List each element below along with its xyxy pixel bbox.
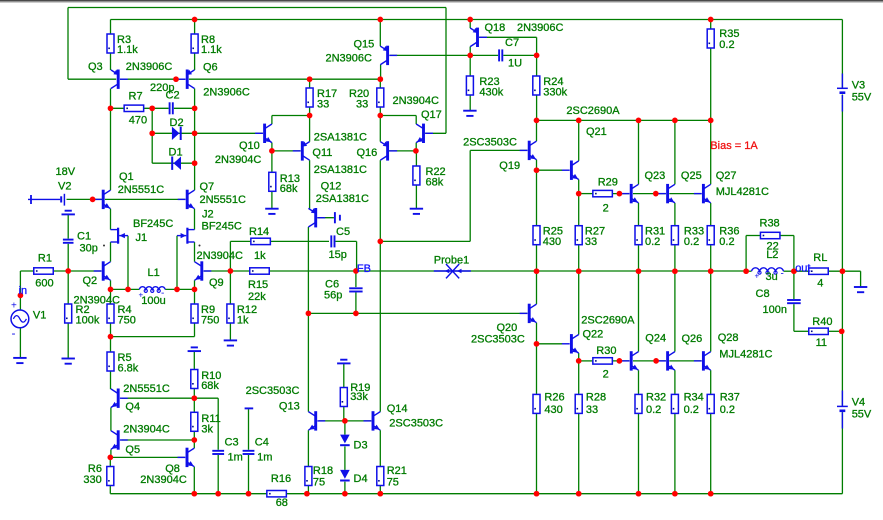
svg-text:R15: R15	[248, 279, 268, 291]
wire	[537, 343, 563, 345]
svg-text:100n: 100n	[763, 304, 787, 316]
wire	[638, 370, 640, 394]
svg-text:2N3904C: 2N3904C	[123, 424, 170, 436]
wire	[229, 241, 231, 271]
svg-text:Q15: Q15	[354, 39, 375, 51]
wire	[379, 430, 381, 466]
junction	[653, 358, 659, 364]
label 2N3904C	[215, 154, 262, 166]
transistor Q5	[111, 430, 128, 449]
label 2SC3503C	[463, 136, 517, 148]
label 55V	[852, 92, 872, 104]
svg-text:Q28: Q28	[718, 332, 739, 344]
wire	[110, 371, 112, 389]
resistor R11	[191, 412, 198, 431]
junction	[192, 105, 198, 111]
svg-text:33: 33	[586, 404, 598, 416]
label R17	[317, 88, 337, 100]
label R1	[38, 253, 52, 265]
junction	[107, 455, 113, 461]
label Q28	[718, 332, 739, 344]
resistor R25	[533, 226, 540, 245]
label 11	[816, 337, 827, 349]
junction	[377, 239, 383, 245]
label 2SC3503C	[389, 418, 443, 430]
label 750	[118, 315, 136, 327]
wire	[828, 330, 842, 332]
label 2SA1381C	[314, 164, 367, 176]
transistor Q8	[178, 448, 195, 467]
junction	[192, 130, 198, 136]
wire	[344, 482, 346, 494]
wire	[109, 457, 111, 466]
junction	[576, 191, 582, 197]
svg-text:2N3906C: 2N3906C	[126, 61, 173, 73]
label 2	[603, 203, 609, 215]
label Q25	[681, 170, 702, 182]
wire	[469, 47, 471, 56]
wire	[19, 328, 21, 358]
wire	[710, 120, 712, 184]
wire	[784, 270, 794, 272]
svg-text:R28: R28	[586, 391, 606, 403]
svg-text:2N3904C: 2N3904C	[215, 154, 262, 166]
label R34	[684, 391, 704, 403]
label R16	[271, 473, 291, 485]
voltage source V4	[841, 391, 843, 429]
wire	[193, 351, 195, 369]
label 0.2	[719, 236, 734, 248]
wire	[230, 240, 329, 242]
svg-text:Q24: Q24	[645, 333, 666, 345]
svg-text:55V: 55V	[852, 92, 872, 104]
wire to V4	[841, 271, 843, 406]
label 33	[585, 236, 597, 248]
wire	[110, 408, 112, 431]
junction	[108, 287, 114, 293]
label D2	[170, 117, 184, 129]
svg-text:Q19: Q19	[499, 160, 520, 172]
svg-text:D4: D4	[354, 473, 368, 485]
svg-text:V4: V4	[852, 397, 865, 409]
wire	[309, 116, 311, 142]
resistor R34	[671, 394, 678, 413]
label R22	[426, 166, 446, 178]
label R2	[76, 304, 90, 316]
label 1k	[237, 315, 249, 327]
svg-text:Q9: Q9	[209, 277, 224, 289]
svg-text:Q14: Q14	[387, 403, 408, 415]
label R7	[129, 91, 143, 103]
transistor Q11	[293, 141, 310, 160]
label 0.2	[684, 236, 699, 248]
label R37	[720, 391, 740, 403]
junction	[353, 311, 359, 317]
wire	[536, 55, 538, 76]
resistor R12	[227, 304, 234, 323]
svg-text:18V: 18V	[56, 166, 76, 178]
transistor Q15	[380, 46, 397, 65]
junction	[617, 358, 623, 364]
svg-text:C4: C4	[255, 437, 269, 449]
label 2N3904C	[393, 95, 440, 107]
resistor R1	[34, 268, 54, 274]
junction	[18, 293, 24, 299]
junction	[708, 17, 714, 23]
label J2	[202, 209, 214, 221]
label 2N3904C	[197, 250, 244, 262]
wire	[195, 132, 263, 134]
wire	[379, 79, 381, 88]
label BF245C	[133, 218, 173, 230]
label R21	[387, 465, 407, 477]
ground under R23	[463, 111, 476, 116]
label 75	[313, 477, 325, 489]
label 0.2	[646, 404, 661, 416]
label R32	[646, 391, 666, 403]
wire	[110, 209, 112, 230]
wire	[309, 160, 311, 208]
label 220p	[150, 82, 174, 94]
inductor L2 polarity	[755, 269, 784, 281]
transistor Q10	[255, 124, 272, 143]
resistor R33	[671, 226, 678, 245]
svg-text:MJL4281C: MJL4281C	[716, 186, 769, 198]
svg-text:1k: 1k	[254, 250, 266, 262]
label 3k	[201, 424, 213, 436]
svg-text:V1: V1	[33, 310, 46, 322]
resistor R7	[124, 105, 143, 111]
wire	[67, 8, 69, 80]
wire	[860, 271, 862, 287]
wire	[379, 486, 381, 494]
svg-text:0.2: 0.2	[720, 404, 735, 416]
wire	[217, 455, 219, 494]
svg-text:R37: R37	[720, 391, 740, 403]
label Q14	[387, 403, 408, 415]
label 330	[83, 474, 101, 486]
junction	[672, 491, 678, 497]
label R6	[88, 463, 102, 475]
resistor R38	[760, 232, 780, 238]
wire	[674, 370, 676, 394]
voltage source V1	[11, 301, 29, 341]
svg-text:2SC2690A: 2SC2690A	[566, 105, 620, 117]
ground under R12	[224, 340, 237, 345]
label Probe1	[434, 254, 469, 266]
wire	[380, 240, 470, 242]
resistor R23	[466, 76, 473, 95]
junction	[108, 105, 114, 111]
junction	[743, 268, 749, 274]
label R23	[479, 76, 499, 88]
svg-text:2SC2690A: 2SC2690A	[581, 315, 635, 327]
label R3	[117, 34, 131, 46]
svg-text:BF245C: BF245C	[202, 221, 242, 233]
label Q13	[279, 401, 300, 413]
svg-text:2N5551C: 2N5551C	[123, 383, 170, 395]
junction	[708, 118, 714, 124]
junction	[636, 118, 642, 124]
svg-text:R21: R21	[387, 465, 407, 477]
junction	[534, 341, 540, 347]
label 600	[35, 278, 53, 290]
wire	[674, 120, 676, 184]
label R33	[684, 226, 704, 238]
wire	[67, 323, 69, 358]
svg-text:Q1: Q1	[119, 171, 134, 183]
junction	[653, 191, 659, 197]
label Q26	[682, 333, 703, 345]
wire	[271, 143, 273, 151]
resistor R35	[707, 29, 714, 48]
label 15p	[329, 249, 347, 261]
svg-text:2SA1381C: 2SA1381C	[316, 193, 369, 205]
wire	[193, 440, 195, 448]
label R13	[280, 173, 300, 185]
wire	[745, 236, 747, 272]
junction	[192, 287, 198, 293]
wire	[343, 407, 345, 421]
svg-text:V3: V3	[852, 79, 865, 91]
wire	[469, 150, 471, 241]
label C5	[336, 226, 350, 238]
svg-text:30p: 30p	[80, 243, 98, 255]
label C6	[325, 278, 339, 290]
wire	[536, 271, 538, 304]
junction	[215, 491, 221, 497]
svg-text:Q21: Q21	[586, 126, 607, 138]
transistor Q14	[364, 411, 381, 430]
label 2N3906C	[326, 52, 373, 64]
svg-text:33: 33	[317, 98, 329, 110]
svg-text:2SC3503C: 2SC3503C	[246, 385, 300, 397]
svg-text:1.1k: 1.1k	[201, 44, 222, 56]
wire	[389, 150, 416, 152]
junction	[534, 118, 540, 124]
wire	[152, 162, 194, 164]
inductor L1 polarity	[139, 288, 165, 300]
wire	[536, 170, 538, 226]
label 6.8k	[118, 362, 139, 374]
label Q7	[200, 181, 215, 193]
label R31	[645, 226, 665, 238]
wire	[425, 132, 446, 134]
svg-text:Q23: Q23	[645, 170, 666, 182]
label Q3	[88, 61, 103, 73]
wire	[229, 323, 231, 340]
wire	[355, 271, 357, 287]
svg-text:R18: R18	[313, 465, 333, 477]
wire	[194, 280, 196, 289]
junction	[839, 328, 845, 334]
wire	[578, 353, 580, 361]
svg-text:R29: R29	[598, 177, 618, 189]
junction	[534, 491, 540, 497]
resistor R22	[413, 166, 420, 185]
junction	[149, 130, 155, 136]
wire	[122, 397, 195, 399]
label 0.2	[719, 39, 734, 51]
inductor L2	[752, 268, 784, 274]
junction	[467, 53, 473, 59]
svg-text:470: 470	[129, 114, 147, 126]
voltage source V3 plates	[837, 88, 848, 92]
junction	[534, 53, 540, 59]
svg-text:C2: C2	[166, 90, 180, 102]
wire	[309, 107, 311, 116]
wire	[272, 150, 301, 152]
label 55V	[852, 409, 872, 421]
wire	[579, 193, 593, 195]
wire	[110, 89, 112, 191]
label 0.2	[684, 404, 699, 416]
jfet J1	[111, 228, 129, 244]
wire	[152, 132, 194, 134]
label R20	[349, 88, 369, 100]
svg-text:2N5551C: 2N5551C	[118, 184, 165, 196]
voltage source V3	[841, 74, 843, 112]
label 430	[544, 404, 562, 416]
label Q10	[239, 140, 260, 152]
wire	[345, 420, 371, 422]
junction	[191, 437, 197, 443]
label 75	[387, 477, 399, 489]
wire	[479, 36, 536, 38]
junction	[636, 491, 642, 497]
label 100k	[76, 315, 100, 327]
svg-text:Q11: Q11	[312, 147, 332, 159]
annotation Bias = 1A	[710, 140, 758, 152]
svg-text:1U: 1U	[508, 58, 522, 70]
wire	[344, 421, 346, 435]
wire	[669, 193, 701, 195]
wire	[379, 107, 381, 116]
wire	[248, 409, 250, 450]
wire	[68, 78, 116, 80]
label MJL4281C	[719, 348, 772, 360]
svg-text:2SA1381C: 2SA1381C	[314, 164, 367, 176]
label J1	[136, 232, 148, 244]
label Q23	[645, 170, 666, 182]
resistor R18	[305, 467, 312, 486]
svg-text:3u: 3u	[766, 271, 778, 283]
transistor Q3	[111, 70, 128, 89]
resistor R4	[107, 304, 114, 323]
junction	[108, 334, 114, 340]
transistor Q6	[178, 70, 195, 89]
junction	[467, 17, 473, 23]
svg-text:R1: R1	[38, 253, 52, 265]
wire	[110, 450, 112, 458]
wire	[470, 149, 527, 151]
ground at RL	[854, 287, 867, 292]
wire bottom rail	[110, 493, 842, 495]
svg-text:1k: 1k	[237, 315, 249, 327]
mark	[199, 245, 201, 247]
wire	[194, 242, 196, 262]
wire	[111, 336, 195, 338]
svg-text:2: 2	[603, 369, 609, 381]
wire	[380, 65, 382, 80]
ground above C1	[62, 211, 75, 215]
wire	[415, 185, 417, 209]
label 100n	[763, 304, 787, 316]
wire	[272, 115, 310, 117]
svg-text:68k: 68k	[280, 183, 298, 195]
svg-text:2N3904C: 2N3904C	[393, 95, 440, 107]
label R18	[313, 465, 333, 477]
svg-text:68: 68	[276, 497, 288, 509]
wire	[415, 116, 417, 125]
junction	[304, 491, 310, 497]
svg-text:2SC3503C: 2SC3503C	[463, 136, 517, 148]
transistor Q22	[562, 334, 579, 353]
wire	[111, 107, 195, 109]
label Q2	[83, 275, 98, 287]
junction	[342, 491, 348, 497]
svg-text:0.2: 0.2	[684, 404, 699, 416]
resistor R5	[107, 352, 114, 371]
wire	[379, 241, 381, 411]
wire	[674, 245, 676, 271]
label V3	[852, 79, 865, 91]
wire	[638, 120, 640, 184]
transistor Q16	[380, 141, 397, 160]
svg-text:600: 600	[35, 278, 53, 290]
svg-text:R26: R26	[544, 391, 564, 403]
svg-text:2SC3503C: 2SC3503C	[471, 334, 525, 346]
wire	[415, 143, 417, 151]
junction	[672, 268, 678, 274]
label Q15	[354, 39, 375, 51]
label 22	[767, 240, 779, 252]
junction	[353, 268, 359, 274]
wire	[127, 236, 129, 290]
svg-text:68k: 68k	[426, 176, 444, 188]
svg-text:Q5: Q5	[125, 444, 140, 456]
svg-text:C1: C1	[77, 231, 91, 243]
wire	[469, 20, 471, 29]
wire	[355, 292, 357, 314]
label 1k	[254, 250, 266, 262]
svg-text:22k: 22k	[248, 291, 266, 303]
resistor R26	[533, 394, 540, 413]
svg-text:Q25: Q25	[681, 170, 702, 182]
wire	[189, 78, 380, 80]
wire	[536, 37, 538, 55]
svg-text:Probe1: Probe1	[434, 254, 469, 266]
svg-text:68k: 68k	[201, 380, 219, 392]
wire	[67, 198, 103, 200]
transistor Q25	[658, 184, 675, 203]
label Q27	[716, 170, 737, 182]
svg-text:2N3906C: 2N3906C	[517, 22, 564, 34]
junction	[534, 268, 540, 274]
svg-text:Q16: Q16	[357, 147, 378, 159]
svg-text:R38: R38	[760, 218, 780, 230]
wire	[307, 313, 309, 411]
inductor L1	[139, 287, 165, 293]
label R5	[118, 352, 132, 364]
wire V3 top lead	[841, 20, 843, 88]
svg-text:33k: 33k	[350, 391, 368, 403]
label Q19	[499, 160, 520, 172]
transistor Q23	[622, 184, 639, 203]
svg-text:Q22: Q22	[583, 328, 604, 340]
capacitor C3	[212, 450, 224, 455]
junction	[65, 268, 71, 274]
